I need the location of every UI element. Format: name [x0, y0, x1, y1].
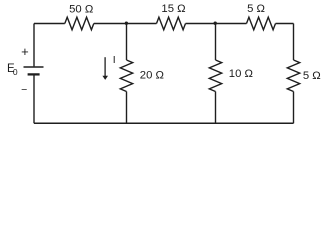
svg-text:50 Ω: 50 Ω: [69, 3, 93, 15]
voltage source E0 short plate (negative): [28, 73, 40, 75]
node B junction dot: [214, 22, 217, 25]
svg-text:5 Ω: 5 Ω: [303, 70, 321, 82]
wire branch 1 upper lead: [126, 24, 128, 61]
svg-text:+: +: [21, 44, 29, 59]
wire branch 2 upper lead: [215, 24, 217, 61]
wire left vertical upper (source positive lead): [33, 24, 35, 67]
wire bottom horizontal: [34, 122, 294, 124]
resistor 10 Ohm (vertical): [209, 60, 221, 91]
wire top-right horizontal segment: [276, 23, 294, 25]
svg-text:0: 0: [13, 67, 18, 77]
svg-text:5 Ω: 5 Ω: [247, 3, 265, 15]
resistor 50 Ohm (horizontal): [65, 17, 94, 30]
wire right vertical upper lead: [293, 24, 295, 61]
wire top-left horizontal segment: [34, 23, 65, 25]
resistor 5 Ohm (vertical, right): [287, 60, 299, 91]
svg-text:I: I: [113, 54, 116, 66]
svg-text:15 Ω: 15 Ω: [161, 3, 185, 15]
wire top segment between 15 Ohm and node B: [186, 23, 247, 25]
resistor 5 Ohm (horizontal, top right): [247, 17, 276, 30]
svg-text:−: −: [21, 84, 27, 96]
wire branch 2 lower lead: [215, 92, 217, 124]
current arrow I (through 20 Ohm): [102, 57, 108, 80]
wire top segment between 50 Ohm and node A: [94, 23, 157, 25]
svg-text:20 Ω: 20 Ω: [140, 70, 164, 82]
resistor 15 Ohm (horizontal): [157, 17, 186, 30]
wire left vertical lower (source negative lead): [33, 75, 35, 123]
voltage source E0 long plate (positive): [24, 66, 44, 68]
resistor 20 Ohm (vertical): [120, 60, 132, 91]
wire branch 1 lower lead: [126, 92, 128, 124]
wire right vertical lower lead: [293, 92, 295, 124]
svg-text:10 Ω: 10 Ω: [229, 68, 253, 80]
node A junction dot: [125, 22, 128, 25]
